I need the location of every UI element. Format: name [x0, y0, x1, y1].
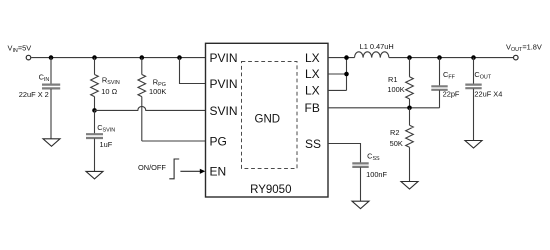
junction dot FB node [407, 106, 412, 111]
ground CSS [352, 201, 369, 209]
svg-text:FB: FB [305, 101, 320, 115]
svg-text:22uF X4: 22uF X4 [474, 90, 502, 99]
svg-text:EN: EN [210, 165, 227, 179]
wire LX bus [346, 58, 348, 91]
wire SS [328, 144, 361, 164]
value R1 100K [387, 85, 404, 94]
label RY9050 [250, 184, 291, 196]
pin PG [210, 134, 227, 148]
ground COUT [465, 141, 482, 149]
resistor RPG [138, 58, 146, 141]
value CFF 22pF [443, 90, 460, 99]
wire PVIN2 branch [180, 58, 206, 84]
label ON/OFF [138, 163, 166, 172]
junction dot RSVIN top [92, 55, 97, 60]
svg-text:SS: SS [305, 137, 321, 151]
svg-text:LX: LX [305, 84, 320, 98]
value CSVIN 1uF [100, 140, 113, 149]
junction dot L1 out [407, 55, 412, 60]
pin SS [305, 137, 321, 151]
wire LX2 [328, 73, 347, 75]
resistor RSVIN [91, 58, 99, 111]
value R2 50K [390, 139, 403, 148]
pin FB [305, 101, 320, 115]
junction dot CIN [49, 55, 54, 60]
op-amp U1 RY9050 box [206, 43, 329, 197]
node VOUT label [506, 42, 542, 53]
ground CIN [43, 139, 60, 147]
pin SVIN [210, 104, 238, 118]
wire PG [142, 140, 206, 142]
wire VIN rail [31, 57, 205, 59]
pin LX 3 [305, 84, 320, 98]
ground R2 [401, 182, 418, 190]
GND exposed pad dashed box [242, 62, 298, 169]
svg-text:ON/OFF: ON/OFF [138, 163, 166, 172]
inductor L1 [355, 52, 389, 58]
label L1 0.47uH [360, 42, 394, 51]
junction dot RPG top [140, 55, 145, 60]
value RPG 100K [149, 87, 166, 96]
label CIN [39, 72, 50, 83]
label CSS [367, 151, 380, 162]
svg-text:10 Ω: 10 Ω [101, 87, 117, 96]
svg-text:R1: R1 [388, 75, 397, 84]
label R2 [390, 128, 399, 137]
svg-text:PG: PG [210, 134, 227, 148]
ground CSVIN [86, 171, 103, 179]
junction dot SVIN node [92, 108, 97, 113]
label CFF [443, 70, 456, 81]
pin LX 2 [305, 67, 320, 81]
svg-text:L1 0.47uH: L1 0.47uH [360, 42, 394, 51]
capacitor CIN [42, 58, 60, 139]
svg-text:100K: 100K [387, 85, 404, 94]
svg-text:22uF X 2: 22uF X 2 [19, 90, 49, 99]
value CSS 100nF [366, 170, 387, 179]
symbol rising edge [169, 159, 179, 179]
junction dot CFF top [437, 55, 442, 60]
wire LX3 [328, 89, 347, 91]
svg-text:LX: LX [305, 67, 320, 81]
junction dot LX2 [344, 72, 349, 77]
svg-text:R2: R2 [390, 128, 399, 137]
wire EN arrow [180, 170, 200, 172]
junction dot COUT top [471, 55, 476, 60]
svg-text:100K: 100K [149, 87, 166, 96]
wire SVIN with hop over RPG [95, 106, 206, 110]
wire FB [328, 107, 440, 109]
label COUT [474, 70, 491, 81]
capacitor CSS [352, 163, 368, 201]
resistor R2 [406, 108, 414, 182]
pin PVIN 1 [210, 51, 238, 65]
label R1 [388, 75, 397, 84]
label CSVIN [97, 123, 115, 134]
wire LX1 [328, 57, 355, 59]
svg-text:RY9050: RY9050 [250, 184, 291, 196]
svg-text:22pF: 22pF [443, 90, 460, 99]
pin PVIN 2 [210, 77, 238, 91]
value RSVIN 10 ohm [101, 87, 117, 96]
svg-text:LX: LX [305, 51, 320, 65]
svg-text:1uF: 1uF [100, 140, 113, 149]
capacitor CSVIN [86, 110, 103, 171]
value CIN 22uF X 2 [19, 90, 49, 99]
junction dot LX1 [344, 55, 349, 60]
junction dot PVIN2 branch [177, 55, 182, 60]
resistor R1 [406, 58, 414, 108]
value COUT 22uF X4 [474, 90, 502, 99]
terminal VIN [26, 55, 31, 60]
svg-text:PVIN: PVIN [210, 77, 238, 91]
wire VOUT rail [389, 57, 513, 59]
node VIN label [8, 43, 32, 54]
capacitor COUT [465, 58, 481, 141]
svg-text:VIN=5V: VIN=5V [8, 43, 32, 54]
svg-text:100nF: 100nF [366, 170, 387, 179]
svg-text:PVIN: PVIN [210, 51, 238, 65]
svg-text:GND: GND [255, 113, 281, 125]
label GND [255, 113, 281, 125]
svg-text:50K: 50K [390, 139, 403, 148]
label RSVIN [102, 76, 120, 87]
pin LX 1 [305, 51, 320, 65]
svg-text:SVIN: SVIN [210, 104, 238, 118]
terminal VOUT [514, 55, 519, 60]
label RPG [153, 78, 166, 89]
capacitor CFF [431, 58, 447, 108]
pin EN [210, 165, 227, 179]
